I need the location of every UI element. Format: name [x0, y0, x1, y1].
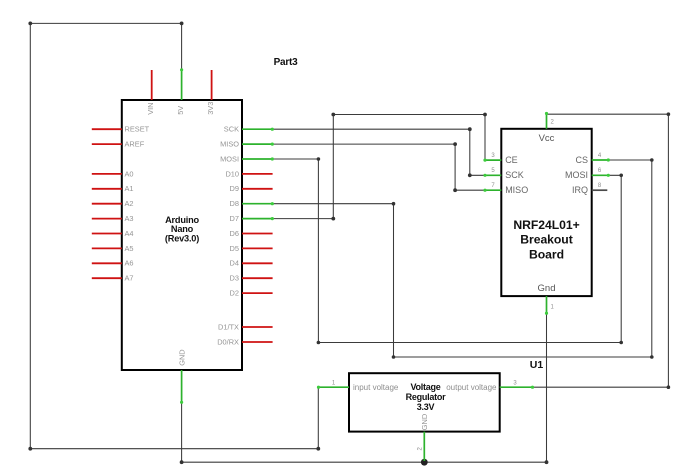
pin D5 (red stub, right) — [242, 247, 273, 249]
svg-text:output voltage: output voltage — [446, 383, 497, 392]
svg-text:5V: 5V — [176, 106, 185, 115]
IC Arduino Nano (Rev3.0) body — [122, 100, 242, 370]
NRF label — [513, 218, 579, 262]
bendpoint dots of D7-CE wire — [331, 113, 487, 221]
svg-text:A4: A4 — [125, 229, 134, 238]
pin A0 (red stub, left) — [92, 173, 122, 175]
svg-text:GND: GND — [420, 414, 429, 430]
svg-text:SCK: SCK — [505, 170, 524, 180]
pin MOSI (green stub, right, connected) — [242, 157, 274, 160]
bendpoint dots of GND wire — [180, 460, 549, 464]
bendpoint dots of MOSI wire — [317, 157, 623, 344]
pin D9 (red stub, right) — [242, 188, 273, 190]
pin A1 (red stub, left) — [92, 188, 122, 190]
pin A7 (red stub, left) — [92, 277, 122, 279]
svg-text:A7: A7 — [125, 274, 134, 283]
svg-text:Regulator: Regulator — [406, 392, 447, 402]
svg-text:D6: D6 — [230, 229, 239, 238]
wire net GND: Arduino GND to regulator GND junction to NRF Gnd — [182, 314, 547, 463]
pin AREF (red stub, left) — [92, 143, 122, 145]
svg-text:D3: D3 — [230, 274, 239, 283]
svg-text:D10: D10 — [225, 169, 239, 178]
svg-text:A6: A6 — [125, 259, 134, 268]
wire net MOSI: Arduino MOSI to NRF MOSI — [273, 159, 622, 343]
pin D7 (green stub, right, connected) — [242, 217, 274, 220]
bendpoint dots of 3V3out wire — [667, 112, 671, 389]
pin A5 (red stub, left) — [92, 247, 122, 249]
wire net D7-CE: Arduino D7 to NRF CE — [273, 115, 485, 219]
svg-text:3V3: 3V3 — [206, 102, 215, 115]
svg-text:Voltage: Voltage — [410, 382, 440, 392]
svg-text:A3: A3 — [125, 214, 134, 223]
svg-text:MOSI: MOSI — [565, 170, 588, 180]
pin 3 output voltage (green stub, right of regulator) — [500, 386, 534, 389]
pin 4 CS (green stub, right of NRF) — [592, 158, 610, 161]
junction GND node at regulator — [421, 459, 428, 466]
pin 8 IRQ (gray stub, right of NRF, unconnected) — [592, 189, 608, 191]
svg-text:SCK: SCK — [224, 125, 239, 134]
pin A3 (red stub, left) — [92, 218, 122, 220]
svg-text:Nano: Nano — [171, 224, 194, 234]
pin SCK (green stub, right, connected) — [242, 128, 274, 131]
svg-text:U1: U1 — [530, 359, 544, 371]
svg-text:A1: A1 — [125, 184, 134, 193]
svg-text:D1/TX: D1/TX — [218, 322, 239, 331]
svg-text:VIN: VIN — [146, 102, 155, 114]
pin 5V (green stub, top, connected) — [180, 68, 183, 100]
pin 3 CE (green stub, left of NRF) — [483, 159, 501, 162]
bendpoint dots of MISO wire — [453, 142, 457, 192]
svg-text:D5: D5 — [230, 244, 239, 253]
wire net 5V: Arduino 5V pin to regulator input voltage — [30, 23, 318, 448]
pin D2 (red stub, right) — [242, 292, 273, 294]
svg-text:AREF: AREF — [125, 140, 145, 149]
pin 2 GND (green stub, bottom of regulator) — [423, 432, 425, 461]
pin D4 (red stub, right) — [242, 262, 273, 264]
svg-text:Board: Board — [529, 247, 564, 261]
svg-text:D8: D8 — [230, 199, 239, 208]
pin RESET (red stub, left) — [92, 128, 122, 130]
svg-text:CE: CE — [505, 155, 518, 165]
wire net D8-CS: Arduino D8 to NRF CS — [273, 160, 652, 357]
pin GND (green stub, bottom of Arduino, connected) — [180, 370, 183, 404]
svg-text:MISO: MISO — [220, 140, 239, 149]
svg-text:D9: D9 — [230, 184, 239, 193]
svg-text:(Rev3.0): (Rev3.0) — [165, 234, 199, 244]
pin MISO (green stub, right, connected) — [242, 143, 274, 146]
svg-text:A0: A0 — [125, 169, 134, 178]
pin 6 MOSI (green stub, right of NRF) — [592, 174, 610, 177]
pin A2 (red stub, left) — [92, 203, 122, 205]
svg-text:RESET: RESET — [125, 125, 150, 134]
svg-text:D4: D4 — [230, 259, 239, 268]
pin 2 Vcc (green stub, top of NRF) — [545, 112, 548, 129]
pin D3 (red stub, right) — [242, 277, 273, 279]
svg-text:Part3: Part3 — [274, 57, 298, 68]
Arduino label — [165, 215, 200, 244]
svg-text:D0/RX: D0/RX — [217, 337, 239, 346]
svg-text:input voltage: input voltage — [353, 383, 399, 392]
pin 1 input voltage (green stub, left of regulator) — [317, 386, 349, 389]
svg-text:D7: D7 — [230, 214, 239, 223]
pin D8 (green stub, right, connected) — [242, 202, 274, 205]
svg-text:A5: A5 — [125, 244, 134, 253]
svg-text:Breakout: Breakout — [520, 233, 572, 247]
pin D10 (red stub, right) — [242, 173, 273, 175]
pin A6 (red stub, left) — [92, 262, 122, 264]
bendpoint dots of D8-CS wire — [392, 158, 654, 359]
pin D1/TX (red stub, right) — [242, 326, 273, 328]
svg-text:A2: A2 — [125, 199, 134, 208]
bendpoint dots of SCK wire — [468, 127, 472, 177]
pin A4 (red stub, left) — [92, 233, 122, 235]
svg-text:NRF24L01+: NRF24L01+ — [513, 218, 579, 232]
svg-text:CS: CS — [575, 155, 588, 165]
svg-text:GND: GND — [177, 349, 186, 365]
wire net MISO: Arduino MISO to NRF MISO — [273, 144, 485, 190]
svg-text:Gnd: Gnd — [538, 283, 556, 294]
pin 5 SCK (green stub, left of NRF) — [483, 174, 501, 177]
wire net SCK: Arduino SCK to NRF SCK — [273, 129, 485, 175]
svg-text:MOSI: MOSI — [220, 154, 239, 163]
pin D0/RX (red stub, right) — [242, 341, 273, 343]
pin 7 MISO (green stub, left of NRF) — [483, 189, 501, 192]
left pin labels — [125, 125, 150, 283]
bendpoint dots of 5V wire — [28, 22, 320, 451]
regulator label — [406, 382, 447, 412]
pin VIN (red stub, top) — [151, 70, 153, 100]
svg-text:MISO: MISO — [505, 185, 528, 195]
IC U1 NRF24L01+ Breakout Board body — [501, 129, 591, 296]
svg-text:Vcc: Vcc — [539, 133, 555, 144]
pin 1 Gnd (green stub, bottom of NRF) — [545, 296, 548, 315]
pin D6 (red stub, right) — [242, 233, 273, 235]
right pin labels — [217, 125, 239, 347]
svg-text:IRQ: IRQ — [572, 185, 588, 195]
IC Voltage Regulator 3.3V body — [349, 373, 500, 431]
wire net 3V3out: regulator output voltage to NRF Vcc — [533, 114, 669, 387]
svg-text:3.3V: 3.3V — [417, 402, 435, 412]
pin 3V3 (red stub, top) — [211, 70, 213, 100]
svg-text:D2: D2 — [230, 289, 239, 298]
